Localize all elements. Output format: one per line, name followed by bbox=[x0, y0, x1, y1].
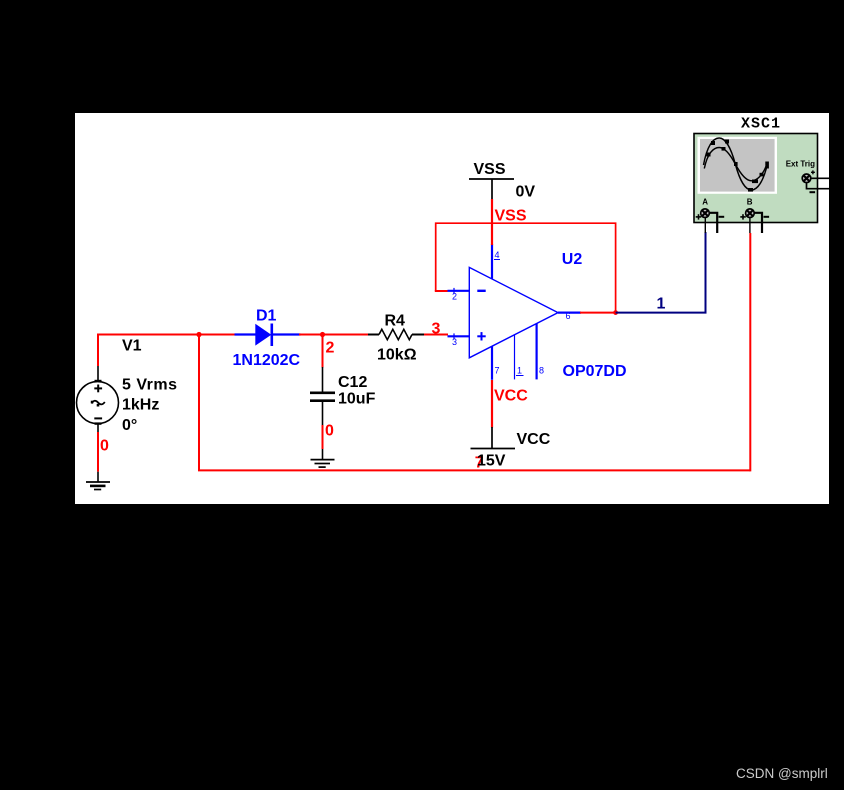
VSS power symbol bbox=[469, 179, 514, 200]
wire: vertical from junction down to bottom net bbox=[198, 335, 200, 471]
label B bbox=[747, 198, 753, 207]
svg-text:4: 4 bbox=[495, 250, 500, 260]
wire: node 2 down to capacitor bbox=[322, 335, 324, 368]
svg-text:D1: D1 bbox=[256, 308, 277, 325]
node 2 junction bbox=[320, 332, 325, 337]
svg-text:0V: 0V bbox=[516, 184, 536, 201]
label VCC black bbox=[517, 431, 551, 448]
wire: feedback loop from output to inverting input (red box) bbox=[436, 223, 616, 312]
ground at C12 bbox=[311, 449, 335, 467]
net label 2 bbox=[326, 340, 335, 357]
label R4 bbox=[385, 313, 406, 330]
net label 0 at V1 bbox=[100, 438, 109, 455]
watermark bbox=[736, 766, 828, 781]
svg-text:7: 7 bbox=[495, 366, 500, 376]
svg-text:A: A bbox=[702, 198, 708, 207]
svg-text:8: 8 bbox=[539, 366, 544, 376]
oscilloscope XSC1 body bbox=[694, 134, 818, 223]
wire: scope channel B vertical wire bbox=[749, 233, 751, 471]
svg-text:0°: 0° bbox=[122, 417, 137, 434]
scope screen bbox=[698, 137, 778, 194]
label C12 bbox=[338, 374, 367, 391]
svg-text:VCC: VCC bbox=[517, 431, 551, 448]
label V1 bbox=[122, 338, 142, 355]
scope trace small bbox=[704, 147, 766, 183]
svg-text:XSC1: XSC1 bbox=[741, 116, 781, 133]
svg-text:3: 3 bbox=[452, 337, 457, 347]
wire: ext trig plus pin bbox=[811, 177, 829, 179]
wire: bottom horizontal net bbox=[198, 469, 750, 471]
svg-text:1N1202C: 1N1202C bbox=[233, 352, 301, 369]
net label 0 at C12 bbox=[325, 423, 334, 440]
svg-text:OP07DD: OP07DD bbox=[563, 363, 627, 380]
wire: VSS rail to pin 4 bbox=[491, 199, 493, 245]
value label OP07DD bbox=[563, 363, 627, 380]
svg-text:2: 2 bbox=[452, 292, 457, 302]
wire: top net from V1 to diode bbox=[98, 335, 235, 367]
label D1 bbox=[256, 308, 277, 325]
label A bbox=[702, 198, 708, 207]
value label 1kHz bbox=[122, 397, 159, 414]
wire: V1 to ground bbox=[97, 432, 99, 472]
wire: stub into minus input bbox=[435, 290, 448, 292]
svg-text:VSS: VSS bbox=[474, 161, 506, 178]
svg-text:V1: V1 bbox=[122, 338, 142, 355]
capacitor C12 bbox=[310, 367, 335, 425]
net label 7 red bbox=[475, 455, 484, 472]
pin number 2 bbox=[452, 292, 457, 302]
resistor R4 bbox=[368, 329, 424, 339]
pin number 8 bbox=[539, 366, 544, 376]
pin number 1 bbox=[516, 366, 524, 376]
scope trace large bbox=[704, 138, 769, 192]
svg-text:R4: R4 bbox=[385, 313, 406, 330]
ext trig terminal bbox=[802, 170, 815, 192]
channel B terminal bbox=[740, 209, 769, 220]
pin number 4 bbox=[494, 250, 500, 260]
svg-text:10uF: 10uF bbox=[338, 391, 376, 408]
label Ext Trig bbox=[786, 160, 815, 169]
svg-text:B: B bbox=[747, 198, 753, 207]
node junction at output bbox=[613, 310, 618, 315]
value label 0 deg bbox=[122, 417, 137, 434]
AC source V1 bbox=[77, 366, 119, 432]
VCC power symbol bbox=[471, 427, 516, 449]
svg-text:3: 3 bbox=[432, 320, 441, 337]
value label 5 Vrms bbox=[122, 376, 177, 393]
svg-text:5 Vrms: 5 Vrms bbox=[122, 376, 177, 393]
pin number 6 bbox=[566, 311, 571, 321]
wire: capacitor to ground bbox=[322, 425, 324, 449]
wire: pin 7 to VCC rail bbox=[491, 380, 493, 428]
pin number 3 bbox=[452, 337, 457, 347]
wire: op-amp output red segment bbox=[580, 312, 616, 314]
channel B minus pin bracket bbox=[755, 213, 763, 233]
wire: output net 1 to scope channel A bbox=[616, 232, 706, 313]
ground at V1 bbox=[86, 472, 110, 490]
value label 10k ohm bbox=[377, 347, 417, 364]
svg-text:6: 6 bbox=[566, 311, 571, 321]
label U2 bbox=[562, 251, 583, 268]
svg-text:1: 1 bbox=[657, 296, 666, 313]
label VSS black bbox=[474, 161, 506, 178]
diode D1 bbox=[235, 324, 301, 347]
svg-text:1kHz: 1kHz bbox=[122, 397, 159, 414]
pin number 7 bbox=[495, 366, 500, 376]
value label 15V bbox=[477, 453, 506, 470]
svg-text:15V: 15V bbox=[477, 453, 506, 470]
svg-text:0: 0 bbox=[100, 438, 109, 455]
net label VSS red bbox=[495, 208, 527, 225]
wire: diode to node 2 and resistor bbox=[299, 334, 368, 336]
value label 1N1202C bbox=[233, 352, 301, 369]
svg-text:10kΩ: 10kΩ bbox=[377, 347, 417, 364]
svg-text:0: 0 bbox=[325, 423, 334, 440]
op-amp U2 bbox=[448, 244, 582, 380]
net label 3 bbox=[432, 320, 441, 337]
svg-text:1: 1 bbox=[517, 366, 522, 376]
svg-text:VCC: VCC bbox=[494, 388, 528, 405]
wire: ext trig minus pin bbox=[807, 183, 830, 189]
channel A plus pin stub bbox=[704, 218, 706, 234]
net label VCC red bbox=[494, 388, 528, 405]
value label 0V bbox=[516, 184, 536, 201]
svg-text:Ext Trig: Ext Trig bbox=[786, 160, 815, 169]
svg-text:2: 2 bbox=[326, 340, 335, 357]
label XSC1 bbox=[741, 116, 781, 133]
value label 10uF bbox=[338, 391, 376, 408]
channel A minus pin bracket bbox=[710, 213, 717, 233]
node junction at top wire x=199 bbox=[196, 332, 201, 337]
svg-text:U2: U2 bbox=[562, 251, 583, 268]
wire: resistor to op-amp plus input bbox=[424, 334, 448, 336]
net label 1 bbox=[657, 296, 666, 313]
svg-text:VSS: VSS bbox=[495, 208, 527, 225]
channel A terminal bbox=[696, 209, 725, 220]
svg-text:CSDN @smplrl: CSDN @smplrl bbox=[736, 766, 828, 781]
channel B plus pin stub bbox=[749, 218, 751, 234]
svg-text:C12: C12 bbox=[338, 374, 367, 391]
